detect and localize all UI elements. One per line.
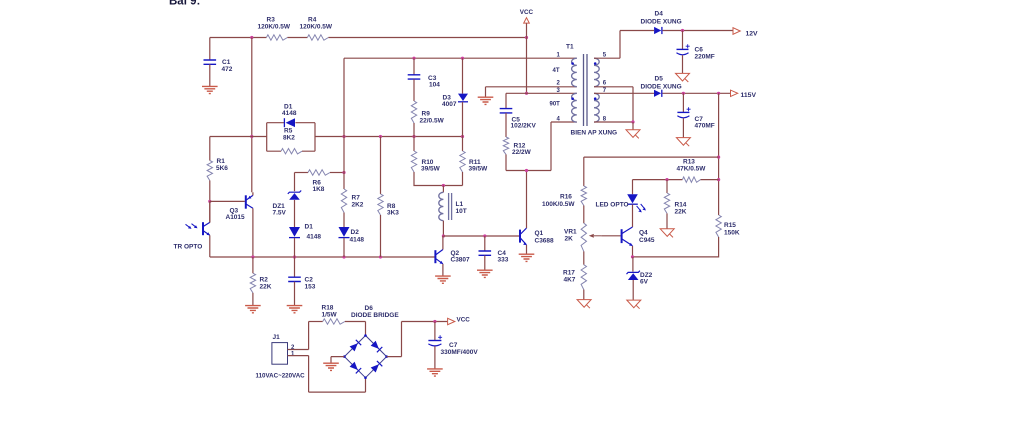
junction left trunk / mid rail — [250, 135, 253, 138]
wire DZ1 to D1 — [294, 200, 296, 227]
svg-text:2K: 2K — [565, 236, 574, 243]
svg-text:470MF: 470MF — [695, 123, 715, 130]
wire R6 to DZ1 — [294, 173, 296, 192]
diode D1 4148 — [289, 227, 300, 237]
svg-text:39/5W: 39/5W — [469, 166, 489, 173]
svg-text:4K7: 4K7 — [564, 277, 576, 284]
wire Q1 emitter to ground — [526, 245, 528, 254]
svg-text:VCC: VCC — [457, 317, 471, 324]
bridge diode bottom-right — [371, 364, 379, 372]
wire top rail left — [210, 37, 267, 39]
resistor R2 — [250, 273, 255, 293]
wire pin3 lead — [506, 92, 577, 94]
wire top rail right — [328, 37, 526, 39]
ground at bridge — [323, 363, 339, 370]
resistor R17 — [581, 265, 586, 290]
T1 polarity dot pin5 — [594, 62, 597, 65]
junction L1 / Q2 collector / Q1 base wire — [442, 234, 445, 237]
capacitor C4 — [479, 251, 492, 255]
svg-text:BIEN AP XUNG: BIEN AP XUNG — [571, 130, 618, 137]
junction feedback top wire — [717, 156, 720, 159]
wire node to C4 — [484, 236, 486, 251]
svg-text:D5: D5 — [655, 76, 664, 83]
svg-text:6: 6 — [603, 81, 607, 87]
svg-text:C1: C1 — [222, 59, 231, 66]
junction L1 top — [442, 184, 445, 187]
diode D3 4007 — [458, 94, 468, 101]
resistor R4 — [307, 35, 328, 40]
ground at pin2 — [478, 97, 494, 104]
resistor R6 — [308, 170, 330, 175]
ground at pin8 — [626, 130, 640, 139]
T1 polarity dot pin1 — [571, 62, 574, 65]
svg-text:7.5V: 7.5V — [273, 210, 287, 217]
svg-text:DIODE BRIDGE: DIODE BRIDGE — [351, 312, 399, 319]
LED light arrows — [637, 204, 645, 211]
junction R13 right — [717, 178, 720, 181]
resistor R9 — [411, 101, 416, 123]
bridge diode top-left — [350, 343, 358, 351]
wire J1 pin1 to bridge bottom — [288, 356, 366, 393]
wire pin2 ground stem — [485, 87, 487, 97]
resistor R10 — [411, 151, 416, 172]
wire rail to R2 — [252, 257, 254, 273]
wire rail to C2 — [294, 257, 296, 277]
junction R6 / trunk — [342, 171, 345, 174]
diode D4 DIODE XUNG — [654, 27, 661, 34]
ground under R17 — [577, 300, 591, 309]
ground under R14 — [660, 229, 674, 238]
wire D3 to mid rail — [462, 102, 464, 137]
wire TR OPTO collector up — [209, 201, 211, 222]
wire DZ1 node to R6 — [295, 172, 309, 174]
wire left trunk to Q3 emitter — [251, 38, 253, 193]
svg-text:115V: 115V — [741, 92, 757, 99]
TR OPTO light arrows — [186, 224, 197, 228]
wire R7 to D2 — [343, 213, 345, 228]
svg-text:5K6: 5K6 — [216, 165, 228, 172]
ground under Q2 — [435, 276, 451, 283]
svg-text:J1: J1 — [273, 334, 281, 341]
resistor R14 — [664, 193, 669, 213]
wire to winding ground — [632, 122, 634, 130]
wire R10 bottom rail — [414, 172, 463, 186]
svg-text:VR1: VR1 — [564, 229, 577, 236]
resistor R13 — [682, 177, 700, 182]
wire mid rail right — [315, 136, 463, 138]
svg-text:LED OPTO: LED OPTO — [596, 202, 629, 209]
wire pin4 column — [550, 122, 552, 171]
capacitor C2 — [288, 277, 301, 281]
inductor L1 — [439, 192, 444, 220]
capacitor C5 — [500, 109, 513, 113]
junction bottom rail / R8 — [379, 255, 382, 258]
wire to D4 — [620, 30, 654, 32]
zener diode DZ2 — [627, 271, 640, 274]
wire Q3 emitter stub — [252, 192, 254, 195]
opto transistor TR OPTO — [203, 222, 210, 235]
transistor Q1 C3688 — [520, 228, 527, 245]
wire pin1 rail to D3 — [462, 58, 464, 93]
svg-text:R15: R15 — [724, 222, 736, 229]
svg-text:C945: C945 — [639, 237, 655, 244]
svg-text:22/2W: 22/2W — [512, 149, 532, 156]
wire R18 to bridge top — [345, 322, 366, 336]
wire Q2 emitter to ground — [442, 264, 444, 276]
svg-text:D6: D6 — [365, 305, 374, 312]
T1 primary winding top (4T) — [572, 58, 577, 86]
wire feedback top — [584, 156, 719, 158]
wire mid rail to R10 — [413, 137, 415, 152]
svg-text:C7: C7 — [449, 342, 458, 349]
svg-text:4148: 4148 — [350, 237, 365, 244]
wire pin3 to C5 — [505, 93, 507, 108]
resistor R11 — [460, 151, 465, 172]
svg-text:1/5W: 1/5W — [322, 312, 338, 319]
power port 115V — [731, 90, 738, 96]
svg-text:22K: 22K — [675, 209, 687, 216]
wire to TR OPTO collector — [209, 201, 211, 222]
wire R8 to rail — [380, 215, 382, 257]
resistor R3 — [266, 35, 287, 40]
svg-text:DIODE XUNG: DIODE XUNG — [641, 84, 682, 91]
junction mid rail / R10 column — [412, 135, 415, 138]
svg-text:5: 5 — [603, 53, 607, 59]
junction C7 — [682, 92, 685, 95]
wire y170 to pin4 column — [506, 170, 551, 172]
svg-text:R7: R7 — [352, 195, 361, 202]
junction top rail / VCC trunk — [525, 36, 528, 39]
wire D1 to rail — [294, 238, 296, 257]
wire R12 down — [505, 154, 507, 170]
svg-text:D4: D4 — [655, 11, 664, 18]
wire mid rail to R8 — [380, 137, 382, 195]
T1 polarity dot pin7 — [594, 97, 597, 100]
wire LED to Q4 collector — [632, 205, 634, 228]
wire D1-R5 box sides — [267, 123, 315, 152]
wire feedback bottom — [633, 237, 719, 257]
capacitor C3 — [408, 75, 421, 79]
svg-text:1K8: 1K8 — [313, 186, 325, 193]
diode D5 DIODE XUNG — [654, 90, 661, 97]
junction C7 330MF — [433, 320, 436, 323]
svg-text:R3: R3 — [267, 17, 276, 24]
wire R1 to node — [209, 181, 211, 202]
diode D2 4148 — [339, 227, 350, 237]
wire D4 to 12V — [663, 30, 733, 32]
ground under C1 — [202, 86, 218, 93]
svg-text:104: 104 — [429, 82, 440, 89]
potentiometer VR1 — [581, 223, 586, 251]
wire to LED — [632, 180, 634, 195]
svg-text:330MF/400V: 330MF/400V — [441, 349, 479, 356]
wire pin7 to D5 — [594, 92, 654, 94]
wire pin1 rail — [344, 57, 577, 59]
T1 secondary winding top — [594, 58, 599, 86]
svg-text:3K3: 3K3 — [387, 210, 399, 217]
resistor R18 — [323, 319, 345, 324]
svg-text:4148: 4148 — [307, 234, 322, 241]
wire between R3 and R4 — [287, 37, 307, 39]
svg-text:DIODE XUNG: DIODE XUNG — [641, 19, 682, 26]
power port VCC bottom — [448, 318, 455, 324]
svg-text:T1: T1 — [566, 44, 574, 51]
ground under C2 — [287, 306, 303, 313]
wire R11 bottom — [462, 172, 464, 186]
svg-text:C2: C2 — [305, 277, 314, 284]
wire bridge left to ground — [331, 357, 344, 363]
junction mid rail / R7 trunk — [342, 135, 345, 138]
wire C2 to ground — [294, 282, 296, 306]
wire C3 to R9 — [413, 79, 415, 101]
wire bottom rail — [210, 256, 435, 258]
wire mid rail to R11 — [462, 137, 464, 152]
svg-text:Bài 9:: Bài 9: — [169, 0, 200, 8]
svg-text:C3688: C3688 — [535, 238, 555, 245]
capacitor C7 470MF (polarized) — [677, 111, 689, 113]
wire C7 to ground — [682, 118, 684, 137]
ground under C6 — [676, 73, 690, 82]
connector J1 — [272, 343, 288, 365]
wire VR1 to R17 — [583, 251, 585, 264]
wire C1 to ground — [209, 64, 211, 86]
svg-text:2: 2 — [557, 81, 561, 87]
wire D5 to 115V — [663, 92, 731, 94]
svg-text:4T: 4T — [553, 68, 560, 74]
wire D1 branch — [267, 122, 315, 124]
svg-text:4148: 4148 — [282, 110, 297, 117]
svg-text:220MF: 220MF — [695, 54, 715, 61]
resistor R8 — [378, 194, 383, 215]
junction pin8 / ground — [631, 120, 634, 123]
junction pin1 rail / D3 column — [461, 57, 464, 60]
bridge node right — [385, 355, 388, 358]
T1 polarity dot pin3 — [571, 97, 574, 100]
ground under C7 330MF — [427, 369, 443, 376]
wire D2 to rail — [343, 238, 345, 257]
junction bottom rail / R2 — [251, 255, 254, 258]
wire J1 pin2 to R18 — [288, 322, 309, 350]
resistor R1 — [207, 161, 212, 181]
svg-text:Q1: Q1 — [535, 230, 544, 237]
ground under C4 — [477, 270, 493, 277]
svg-text:120K/0.5W: 120K/0.5W — [300, 24, 333, 31]
svg-text:R14: R14 — [675, 202, 687, 209]
svg-text:R16: R16 — [560, 194, 572, 201]
junction R1 / Q3 base — [208, 200, 211, 203]
ground under DZ2 — [627, 300, 641, 309]
wire C7 to ground — [434, 346, 436, 368]
svg-text:1: 1 — [557, 53, 561, 59]
wire 115V column down — [718, 93, 720, 215]
wire node to Q1 base — [443, 235, 520, 237]
svg-text:102/2KV: 102/2KV — [511, 123, 537, 130]
bridge diode bottom-left — [350, 362, 358, 370]
ground under Q1 — [519, 254, 535, 261]
svg-text:R17: R17 — [563, 270, 575, 277]
wire R17 to ground — [583, 290, 585, 300]
wire pin2 lead — [486, 86, 577, 88]
svg-text:VCC: VCC — [520, 9, 534, 16]
wire Q2 collector up — [442, 236, 444, 250]
junction mid rail / R11 column — [461, 135, 464, 138]
wire to C1 — [209, 38, 211, 61]
svg-text:39/5W: 39/5W — [421, 166, 441, 173]
VR1 wiper arrow — [594, 235, 601, 237]
svg-text:R18: R18 — [322, 305, 334, 312]
bridge node left — [343, 355, 346, 358]
svg-text:C3807: C3807 — [451, 257, 471, 264]
wire L1 to node — [442, 221, 444, 236]
ground under C7 — [676, 138, 690, 147]
junction top rail / left trunk — [250, 36, 253, 39]
junction VCC trunk / pin3 wire — [525, 92, 528, 95]
wire pin8 lead — [594, 121, 633, 123]
wire C6 to ground — [682, 55, 684, 73]
T1 core — [584, 54, 588, 126]
wire VCC trunk — [526, 23, 528, 93]
svg-text:6V: 6V — [640, 279, 649, 286]
wire to R14 — [666, 180, 668, 193]
bridge node bottom — [364, 376, 367, 379]
svg-text:2K2: 2K2 — [352, 202, 364, 209]
junction mid rail / R8 column — [379, 135, 382, 138]
capacitor C7 330MF/400V (polarized) — [428, 340, 441, 342]
wire R13 left feed — [633, 179, 683, 181]
svg-text:100K/0.5W: 100K/0.5W — [542, 201, 575, 208]
LED OPTO — [627, 194, 638, 203]
wire to L1 — [442, 186, 444, 193]
wire pin1 rail to C3 — [413, 58, 415, 75]
svg-text:153: 153 — [305, 284, 316, 291]
svg-text:120K/0.5W: 120K/0.5W — [258, 24, 291, 31]
junction Q1 collector / pin4 wire — [525, 169, 528, 172]
svg-text:22K: 22K — [260, 284, 272, 291]
svg-text:D2: D2 — [351, 229, 360, 236]
svg-text:A1015: A1015 — [226, 214, 246, 221]
svg-text:472: 472 — [222, 66, 233, 73]
wire to C7 — [682, 93, 684, 112]
power port VCC top — [524, 18, 530, 23]
wire VR1 wiper to Q4 base — [601, 235, 621, 237]
wire R9 to mid rail — [413, 123, 415, 137]
resistor R16 — [581, 186, 586, 206]
junction 115V / feedback column — [717, 92, 720, 95]
junction bottom rail / C2 — [293, 255, 296, 258]
wire C5 to R12 — [505, 113, 507, 137]
wire pin4 lead — [551, 121, 577, 123]
svg-text:R9: R9 — [422, 111, 431, 118]
T1 secondary winding bottom — [594, 93, 599, 122]
zener diode DZ1 — [288, 191, 301, 194]
svg-text:D1: D1 — [305, 224, 314, 231]
svg-text:R5: R5 — [284, 128, 293, 135]
wire bridge right to VCC — [387, 322, 448, 357]
wire R5 branch — [267, 150, 315, 152]
wire pin5 lead up — [594, 31, 620, 59]
svg-text:110VAC~220VAC: 110VAC~220VAC — [256, 373, 306, 380]
ground under R2 — [245, 306, 261, 313]
wire to C7 330MF — [434, 322, 436, 341]
wire Q4 emitter down — [632, 246, 634, 257]
wire C4 to ground — [484, 256, 486, 271]
wire R2 to ground — [252, 293, 254, 306]
svg-text:C6: C6 — [695, 47, 704, 54]
wire R16 to VR1 — [583, 206, 585, 224]
svg-text:10T: 10T — [456, 208, 467, 215]
wire trunk upper — [343, 58, 345, 189]
svg-text:47K/0.5W: 47K/0.5W — [677, 166, 707, 173]
wire to Q3 base — [210, 200, 245, 202]
T1 primary winding bottom (90T) — [572, 93, 577, 122]
power port 12V — [733, 28, 740, 35]
svg-text:R13: R13 — [683, 159, 695, 166]
wire to R18 — [309, 321, 323, 323]
resistor R7 — [341, 189, 346, 213]
wire mid rail left — [210, 136, 267, 138]
transistor Q4 C945 — [622, 227, 633, 246]
junction bottom rail / D2 — [342, 255, 345, 258]
diode bridge D6 frame — [344, 336, 386, 378]
wire R13 right feed — [701, 179, 719, 181]
wire Q1 collector up — [526, 171, 528, 229]
capacitor C6 (polarized) — [677, 48, 689, 50]
transistor Q3 A1015 — [246, 195, 253, 208]
transistor Q2 C3807 — [435, 250, 443, 264]
wire to DZ2 — [632, 257, 634, 272]
svg-text:L1: L1 — [456, 201, 464, 208]
wire TR OPTO emitter down — [209, 235, 211, 257]
junction Q4 emitter / DZ2 — [631, 255, 634, 258]
svg-text:R4: R4 — [308, 17, 317, 24]
diode D1 (in box, pointing left) — [286, 118, 295, 127]
wire R14 to ground — [666, 213, 668, 228]
wire to R16 — [583, 157, 585, 186]
svg-text:333: 333 — [498, 257, 509, 264]
junction R14 — [665, 178, 668, 181]
resistor R15 — [716, 215, 721, 237]
bridge diode top-right — [371, 341, 379, 349]
junction C4 — [483, 234, 486, 237]
svg-text:12V: 12V — [746, 31, 759, 38]
junction pin1 rail / C3 column — [412, 57, 415, 60]
resistor R12 — [503, 137, 508, 154]
capacitor C1 — [204, 60, 217, 64]
svg-text:R2: R2 — [260, 277, 269, 284]
wire to C6 — [682, 31, 684, 50]
svg-text:R1: R1 — [217, 158, 226, 165]
wire mid rail to R1 — [209, 137, 211, 161]
svg-text:150K: 150K — [724, 230, 740, 237]
junction C6 — [681, 29, 684, 32]
svg-text:8K2: 8K2 — [283, 135, 295, 142]
svg-text:4007: 4007 — [442, 101, 457, 108]
svg-text:Q4: Q4 — [639, 230, 648, 237]
svg-text:22/0.5W: 22/0.5W — [420, 118, 445, 125]
resistor R5 — [281, 149, 302, 154]
wire R6 to trunk — [330, 172, 344, 174]
wire DZ2 to ground — [632, 280, 634, 300]
svg-text:1: 1 — [291, 351, 295, 357]
svg-text:90T: 90T — [550, 102, 561, 108]
wire Q3 collector down — [252, 208, 254, 257]
wire pin6 to pin8 node — [594, 87, 633, 122]
svg-text:TR OPTO: TR OPTO — [174, 244, 203, 251]
bridge node top — [364, 334, 367, 337]
